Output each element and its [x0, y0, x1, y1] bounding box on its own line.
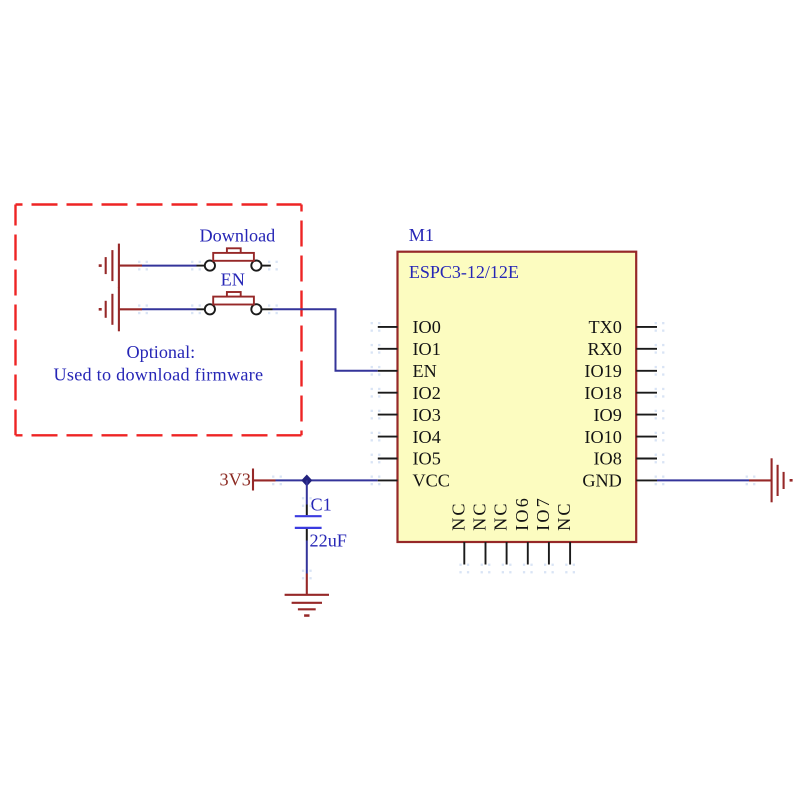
- pin IO4: [378, 427, 441, 447]
- svg-text:IO6: IO6: [512, 496, 532, 531]
- svg-text:NC: NC: [470, 501, 490, 531]
- IC M1 body: [398, 252, 637, 542]
- svg-text:Used to download firmware: Used to download firmware: [54, 365, 264, 385]
- pin EN: [378, 361, 437, 381]
- pin IO6: [512, 496, 532, 564]
- pin IO10: [584, 427, 657, 447]
- pin IO9: [594, 405, 657, 425]
- svg-text:IO10: IO10: [584, 427, 621, 447]
- svg-text:ESPC3-12/12E: ESPC3-12/12E: [409, 262, 519, 282]
- pin IO1: [378, 339, 441, 359]
- pin TX0: [588, 317, 657, 337]
- wire gnd2 to S2: [142, 308, 197, 310]
- svg-text:IO5: IO5: [413, 449, 441, 469]
- selection marks: [138, 261, 755, 580]
- pin GND: [582, 471, 657, 491]
- svg-text:Download: Download: [200, 225, 276, 245]
- svg-text:IO19: IO19: [584, 361, 621, 381]
- pin IO7: [533, 496, 553, 564]
- pin VCC: [378, 471, 450, 491]
- svg-text:IO0: IO0: [413, 317, 441, 337]
- svg-text:IO18: IO18: [584, 383, 621, 403]
- svg-text:IO1: IO1: [413, 339, 441, 359]
- svg-text:IO2: IO2: [413, 383, 441, 403]
- ground GND1 (download button): [99, 244, 142, 288]
- svg-text:C1: C1: [311, 494, 332, 514]
- pin NC bottom 2: [470, 501, 490, 564]
- svg-text:NC: NC: [491, 501, 511, 531]
- pushbutton S2 EN: [197, 292, 273, 314]
- svg-text:IO9: IO9: [594, 405, 622, 425]
- svg-text:IO3: IO3: [413, 405, 441, 425]
- dashed optional box: [16, 205, 302, 436]
- power port 3V3: [253, 469, 276, 491]
- wire gnd1 to S1: [142, 265, 197, 267]
- pin IO5: [378, 449, 441, 469]
- svg-text:NC: NC: [448, 501, 468, 531]
- pin NC bottom 3: [491, 501, 511, 564]
- pin RX0: [587, 339, 657, 359]
- pushbutton S1 Download: [197, 248, 271, 270]
- wire junction down to C1: [306, 480, 308, 504]
- pin NC bottom 6: [554, 501, 574, 564]
- ground GND3 (below C1): [285, 574, 329, 617]
- wire S2 to EN pin: [273, 309, 378, 371]
- svg-text:GND: GND: [582, 471, 621, 491]
- pin IO19: [584, 361, 657, 381]
- wire C1 to ground: [306, 541, 308, 574]
- ground GND4 (right): [749, 458, 793, 502]
- pin IO0: [378, 317, 441, 337]
- svg-text:22uF: 22uF: [310, 530, 347, 550]
- svg-text:TX0: TX0: [588, 317, 621, 337]
- wire 3V3 to VCC pin: [276, 479, 378, 481]
- pin NC bottom 1: [448, 501, 468, 564]
- svg-text:M1: M1: [409, 225, 434, 245]
- wire GND pin to ground: [657, 479, 749, 481]
- pin IO18: [584, 383, 657, 403]
- svg-text:IO8: IO8: [594, 449, 622, 469]
- ground GND2 (EN button): [99, 287, 142, 331]
- svg-text:3V3: 3V3: [220, 470, 251, 490]
- junction at C1 tap: [302, 475, 312, 485]
- svg-text:IO7: IO7: [533, 496, 553, 531]
- svg-text:Optional:: Optional:: [127, 342, 196, 362]
- capacitor C1: [295, 505, 322, 541]
- svg-text:EN: EN: [221, 269, 245, 289]
- svg-text:VCC: VCC: [413, 471, 450, 491]
- pin IO8: [594, 449, 657, 469]
- svg-text:EN: EN: [413, 361, 437, 381]
- pin IO2: [378, 383, 441, 403]
- svg-text:IO4: IO4: [413, 427, 441, 447]
- pin IO3: [378, 405, 441, 425]
- svg-text:RX0: RX0: [587, 339, 621, 359]
- svg-text:NC: NC: [554, 501, 574, 531]
